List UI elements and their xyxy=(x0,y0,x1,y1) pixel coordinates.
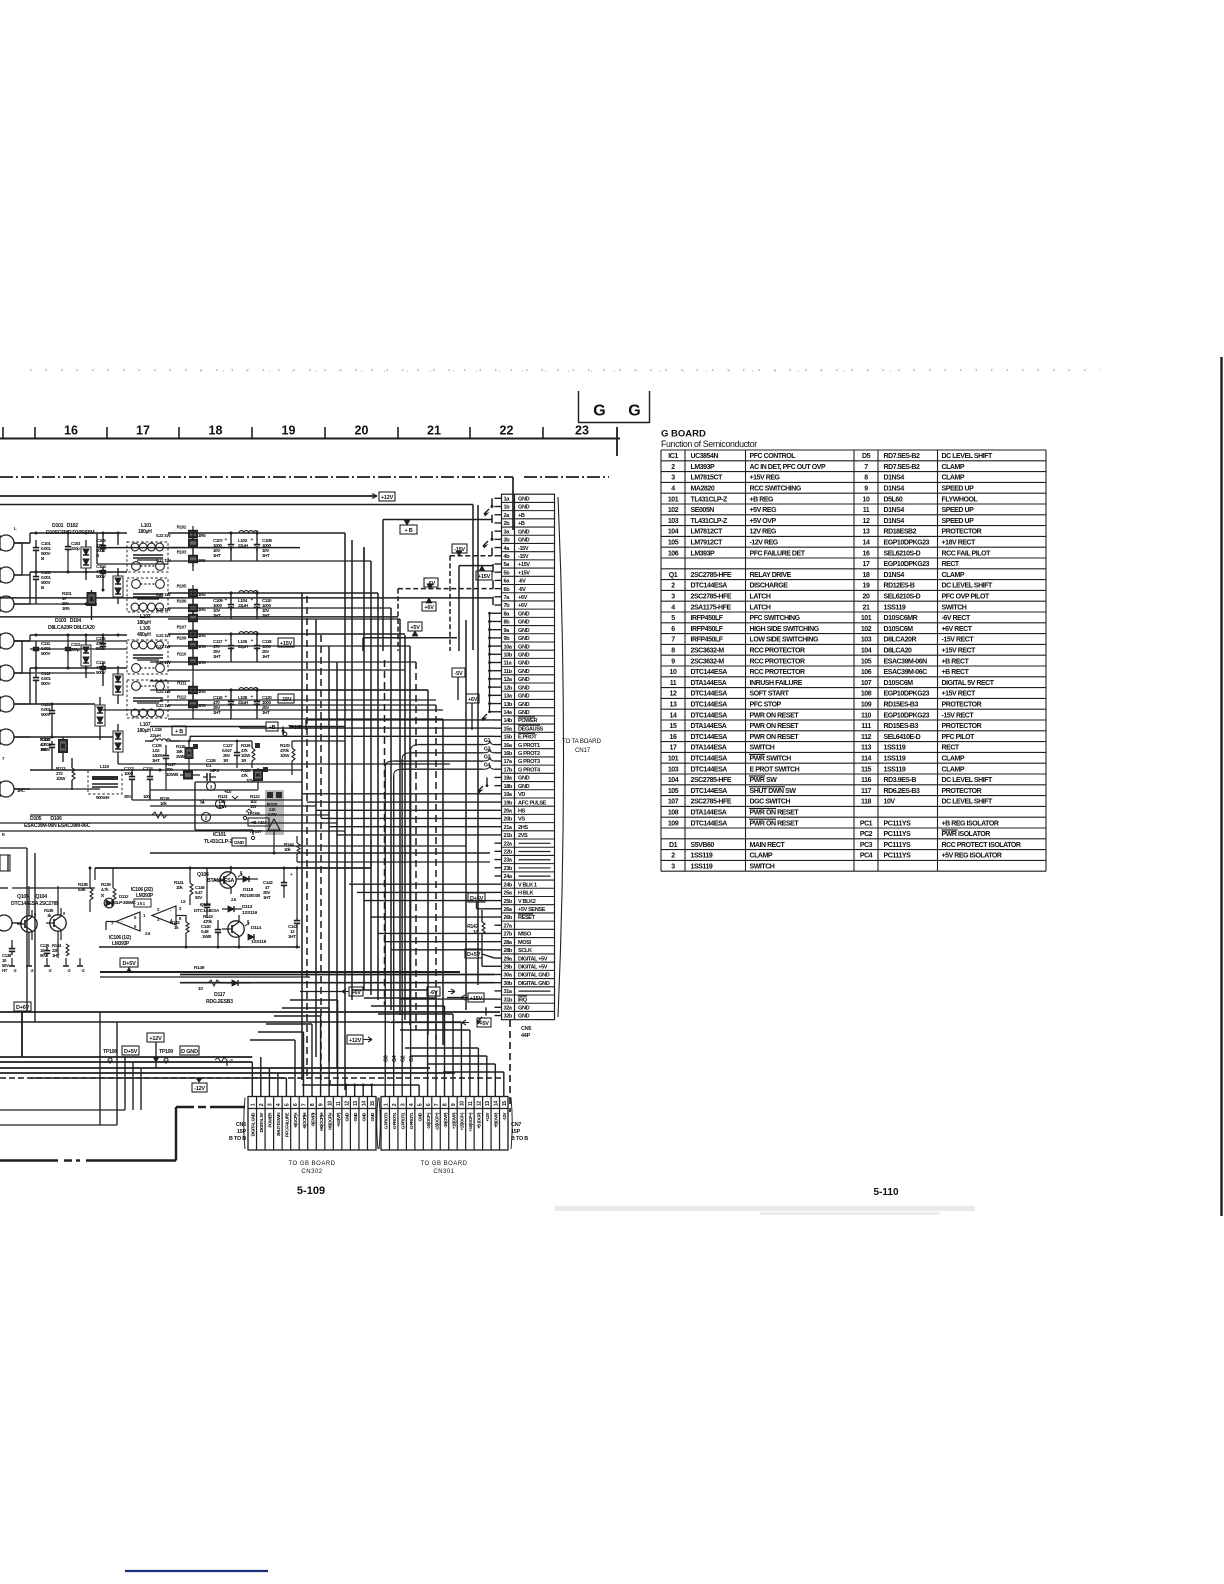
svg-text:500V: 500V xyxy=(41,747,51,752)
svg-text:113: 113 xyxy=(861,745,871,752)
svg-text:+6V: +6V xyxy=(424,605,434,611)
svg-text:RECT: RECT xyxy=(942,745,960,752)
svg-text:3: 3 xyxy=(671,594,675,601)
resistor R142 xyxy=(170,915,189,947)
svg-text:LM393P: LM393P xyxy=(112,941,130,947)
choke transformer L107 xyxy=(127,680,168,734)
voltage label +5V mid xyxy=(408,622,422,631)
svg-text:8: 8 xyxy=(443,1103,449,1106)
svg-text:EGP10DPKG23: EGP10DPKG23 xyxy=(884,691,930,698)
svg-text:18b: 18b xyxy=(504,784,513,790)
svg-text:CN5: CN5 xyxy=(521,1026,531,1032)
svg-text:2: 2 xyxy=(671,853,675,860)
junction dots filter rows xyxy=(67,532,259,692)
capacitor C101 xyxy=(33,540,52,572)
capacitor C105 xyxy=(96,533,106,558)
svg-text:19: 19 xyxy=(282,424,296,438)
svg-text:PROTECTOR: PROTECTOR xyxy=(942,723,982,730)
svg-text:21: 21 xyxy=(863,604,870,611)
svg-text:G PROT4: G PROT4 xyxy=(392,1112,397,1129)
svg-text:24a: 24a xyxy=(504,874,513,880)
wire bundle vertical bus xyxy=(302,505,478,1090)
svg-text:3: 3 xyxy=(210,785,213,790)
svg-text:SWITCH: SWITCH xyxy=(750,745,775,752)
svg-text:109: 109 xyxy=(861,702,872,709)
svg-text:EGP10DPKG23: EGP10DPKG23 xyxy=(884,561,930,568)
svg-text:500V: 500V xyxy=(41,651,51,656)
svg-text:1HT: 1HT xyxy=(152,758,160,763)
voltage label -15V xyxy=(278,694,294,703)
svg-text:MAIN RECT: MAIN RECT xyxy=(750,842,786,849)
capacitor C103 xyxy=(65,533,81,572)
inductor L104 xyxy=(238,591,258,608)
svg-text:HIGH SIDE SWITCHING: HIGH SIDE SWITCHING xyxy=(750,626,820,633)
svg-text:S5VB60: S5VB60 xyxy=(691,842,715,849)
svg-text:-6(OVP)I: -6(OVP)I xyxy=(310,1113,315,1127)
svg-text:R110: R110 xyxy=(177,652,187,657)
svg-text:DC LEVEL SHIFT: DC LEVEL SHIFT xyxy=(942,453,994,460)
svg-text:107: 107 xyxy=(861,680,872,687)
svg-text:D114: D114 xyxy=(251,925,262,931)
svg-text:+: + xyxy=(224,695,227,700)
svg-text:100: 100 xyxy=(143,794,150,799)
svg-text:4: 4 xyxy=(671,486,675,493)
svg-text:115: 115 xyxy=(861,766,871,773)
svg-text:102: 102 xyxy=(668,507,679,514)
svg-text:LM7815CT: LM7815CT xyxy=(691,475,724,482)
svg-text:20b: 20b xyxy=(504,817,513,823)
svg-text:107: 107 xyxy=(668,799,679,806)
svg-text:DTC144ESA: DTC144ESA xyxy=(691,766,728,773)
svg-text:SE005N: SE005N xyxy=(691,507,715,514)
svg-text:116: 116 xyxy=(861,777,871,784)
resistor R139 xyxy=(101,868,116,906)
svg-text:D1NS4: D1NS4 xyxy=(884,475,905,482)
svg-text:6b: 6b xyxy=(504,587,511,593)
svg-text:PFC PILOT: PFC PILOT xyxy=(942,734,976,741)
svg-text:101: 101 xyxy=(861,615,872,622)
svg-text:14: 14 xyxy=(670,712,677,719)
wire left edge links xyxy=(14,543,30,789)
resistor R133 R136 labels xyxy=(40,943,69,958)
capacitor C113 xyxy=(65,635,81,668)
svg-text:POWER: POWER xyxy=(518,718,537,724)
svg-text:+12V: +12V xyxy=(349,1038,362,1044)
choke transformer L103 xyxy=(127,578,168,626)
transistors Q105 Q104 labels xyxy=(11,894,59,907)
capacitor C123 xyxy=(124,766,135,800)
svg-text:+6V RECT: +6V RECT xyxy=(942,626,973,633)
svg-text:CLAMP: CLAMP xyxy=(750,853,773,860)
svg-text:LM7812CT: LM7812CT xyxy=(691,529,724,536)
svg-text:GND: GND xyxy=(518,776,530,782)
svg-text:G1: G1 xyxy=(484,738,491,744)
capacitor C127 xyxy=(222,741,240,768)
svg-text:-15(OCP-): -15(OCP-) xyxy=(426,1112,431,1129)
wire mid band extra horizontals xyxy=(0,670,490,862)
svg-text:DTC144ESA: DTC144ESA xyxy=(691,583,728,590)
svg-text:E: E xyxy=(2,832,5,837)
svg-text:10V: 10V xyxy=(884,799,896,806)
line input terminals xyxy=(0,535,30,931)
svg-text:+15(OCP-): +15(OCP-) xyxy=(460,1112,465,1130)
label TO GB BOARD CN301 xyxy=(420,1161,467,1175)
svg-text:+15(OCP+): +15(OCP+) xyxy=(468,1112,473,1132)
svg-text:20: 20 xyxy=(355,424,369,438)
resistor R113 xyxy=(56,758,75,790)
svg-text:2SC2785-HFE: 2SC2785-HFE xyxy=(691,777,732,784)
svg-text:1HT: 1HT xyxy=(263,895,271,900)
svg-text:IRFP450LF: IRFP450LF xyxy=(691,637,724,644)
svg-text:LM393P: LM393P xyxy=(691,464,716,471)
svg-text:+6V: +6V xyxy=(518,603,528,609)
resistor stack R102-R110 0.22 1W xyxy=(156,525,206,713)
svg-text:PWR ON RESET: PWR ON RESET xyxy=(750,712,800,719)
svg-text:RCC PROTECT ISOLATOR: RCC PROTECT ISOLATOR xyxy=(942,842,1021,849)
svg-text:Q1: Q1 xyxy=(669,572,678,579)
svg-text:109: 109 xyxy=(668,820,679,827)
svg-text:R106: R106 xyxy=(177,599,187,604)
svg-text:-12V: -12V xyxy=(194,1086,205,1092)
svg-text:+B RECT: +B RECT xyxy=(942,658,970,665)
diode pair D101 xyxy=(81,540,91,580)
svg-text:25a: 25a xyxy=(504,891,513,897)
svg-text:E PROT: E PROT xyxy=(518,735,537,741)
svg-text:104: 104 xyxy=(668,529,679,536)
svg-text:1/2W: 1/2W xyxy=(56,776,66,781)
svg-text:VD: VD xyxy=(518,792,525,798)
svg-text:PFC SWITCHING: PFC SWITCHING xyxy=(750,615,801,622)
svg-text:10a: 10a xyxy=(504,644,513,650)
svg-text:RD15ES-B3: RD15ES-B3 xyxy=(884,702,919,709)
wire E PROT feed pin 15b xyxy=(190,735,495,737)
svg-text:2: 2 xyxy=(205,816,208,821)
svg-text:PC1: PC1 xyxy=(860,820,873,827)
svg-text:D8LCA20: D8LCA20 xyxy=(884,648,913,655)
svg-text:GND: GND xyxy=(518,611,530,617)
test point TP105 xyxy=(283,725,302,736)
svg-text:17: 17 xyxy=(863,561,870,568)
svg-text:3: 3 xyxy=(671,475,675,482)
svg-text:16b: 16b xyxy=(504,751,513,757)
svg-text:1HT: 1HT xyxy=(262,710,270,715)
svg-text:SPEED UP: SPEED UP xyxy=(942,507,975,514)
svg-text:DIGITAL 5V RECT: DIGITAL 5V RECT xyxy=(942,680,995,687)
voltage label +15V xyxy=(278,638,294,647)
svg-text:16: 16 xyxy=(670,734,677,741)
resistor R115 xyxy=(176,741,198,770)
svg-text:GND: GND xyxy=(518,497,530,503)
column ruler xyxy=(0,424,620,457)
svg-text:7b: 7b xyxy=(504,603,511,609)
capacitor C108 xyxy=(250,533,272,558)
label IC101 TL431CLP-Z xyxy=(204,832,233,845)
svg-text:MOSI: MOSI xyxy=(518,940,532,946)
svg-text:1HT: 1HT xyxy=(213,613,221,618)
svg-text:GND: GND xyxy=(518,1014,530,1020)
svg-text:1SS119: 1SS119 xyxy=(242,910,258,916)
svg-text:G BOARD: G BOARD xyxy=(661,429,706,440)
svg-text:4: 4 xyxy=(409,1103,415,1106)
label +B ADJ box xyxy=(248,818,269,826)
svg-text:G: G xyxy=(628,403,640,420)
test point TP109 xyxy=(159,1049,173,1062)
svg-text:18a: 18a xyxy=(504,776,513,782)
svg-text:SEL6210S-D: SEL6210S-D xyxy=(884,594,921,601)
svg-text:LM7912CT: LM7912CT xyxy=(691,540,724,547)
capacitor C112 xyxy=(33,671,52,704)
svg-text:+15V: +15V xyxy=(518,570,530,576)
wire staircase to CN6 xyxy=(30,1000,373,1097)
svg-text:L118: L118 xyxy=(152,727,162,733)
svg-text:DIGITAL +5V: DIGITAL +5V xyxy=(518,964,548,970)
voltage label D+5V at pin 26a xyxy=(468,893,495,909)
svg-text:220p: 220p xyxy=(71,546,80,551)
svg-text:PWR ON RESET: PWR ON RESET xyxy=(750,723,800,730)
svg-text:11: 11 xyxy=(670,680,677,687)
svg-text:+15V RECT: +15V RECT xyxy=(942,691,977,698)
svg-text:10k: 10k xyxy=(284,847,291,852)
svg-text:8: 8 xyxy=(310,1103,316,1106)
svg-text:26b: 26b xyxy=(504,915,513,921)
svg-text:1: 1 xyxy=(250,1103,256,1106)
svg-text:RD7.5ES-B2: RD7.5ES-B2 xyxy=(884,453,921,460)
svg-text:2SC2785-HFE: 2SC2785-HFE xyxy=(691,799,732,806)
svg-text:+B REG: +B REG xyxy=(750,496,775,503)
diode pair D103 xyxy=(81,635,91,678)
svg-text:+: + xyxy=(224,639,227,644)
svg-text:1HT: 1HT xyxy=(262,553,270,558)
svg-text:5-109: 5-109 xyxy=(297,1185,325,1197)
svg-text:TP106: TP106 xyxy=(247,811,260,817)
svg-text:2b: 2b xyxy=(504,521,511,527)
svg-text:DTC144ESA: DTC144ESA xyxy=(691,702,728,709)
svg-text:PWR ON RESET: PWR ON RESET xyxy=(750,810,800,817)
svg-text:22b: 22b xyxy=(504,850,513,856)
resistor R144 xyxy=(284,836,300,862)
resistor R121 xyxy=(218,794,238,809)
svg-text:PFC STOP: PFC STOP xyxy=(750,702,782,709)
svg-text:G3: G3 xyxy=(384,1055,390,1062)
svg-text:13: 13 xyxy=(670,702,677,709)
svg-text:AC IN DET, PFC OUT OVP: AC IN DET, PFC OUT OVP xyxy=(750,464,826,471)
svg-text:12: 12 xyxy=(477,1101,483,1107)
svg-text:IRFP450LF: IRFP450LF xyxy=(691,615,724,622)
svg-text:21a: 21a xyxy=(504,825,513,831)
svg-text:D103 D104: D103 D104 xyxy=(55,618,81,624)
svg-text:103: 103 xyxy=(668,766,679,773)
svg-text:Q105 Q104: Q105 Q104 xyxy=(17,894,47,900)
svg-text:29b: 29b xyxy=(504,964,513,970)
wire IRQ pin 31b xyxy=(400,998,495,1000)
diodes D105 D106 labels xyxy=(24,816,91,829)
svg-text:D101 D102: D101 D102 xyxy=(52,523,78,529)
svg-text:13: 13 xyxy=(863,529,870,536)
svg-text:DTC144ESA: DTC144ESA xyxy=(691,691,728,698)
svg-text:31a: 31a xyxy=(504,989,513,995)
svg-text:H6(OCP)-I: H6(OCP)-I xyxy=(327,1113,332,1130)
resistor R122 xyxy=(246,794,260,812)
svg-text:108: 108 xyxy=(668,810,679,817)
test point TP108 xyxy=(103,1049,117,1062)
svg-text:2: 2 xyxy=(259,1103,265,1106)
svg-text:ESAC39M-06N ESAC39M-06C: ESAC39M-06N ESAC39M-06C xyxy=(24,823,91,829)
voltage label -5V mid xyxy=(452,668,465,700)
adjuster RV101 xyxy=(265,790,284,836)
svg-text:22a: 22a xyxy=(504,841,513,847)
svg-text:SCLK: SCLK xyxy=(518,948,532,954)
voltage label +15V xyxy=(476,571,492,580)
svg-text:22μH: 22μH xyxy=(238,543,249,548)
svg-text:G PROT3: G PROT3 xyxy=(384,1112,389,1129)
svg-text:1 5 1: 1 5 1 xyxy=(137,901,146,906)
wire +15V feeds pins 5a 5b xyxy=(459,564,493,651)
svg-text:CLAMP: CLAMP xyxy=(942,766,965,773)
table function of semiconductor xyxy=(661,450,1046,871)
svg-text:D112: D112 xyxy=(119,894,129,899)
svg-text:PFC FAILURE DET: PFC FAILURE DET xyxy=(750,550,806,557)
svg-text:1SS119: 1SS119 xyxy=(691,864,713,871)
svg-text:R107: R107 xyxy=(177,625,187,630)
connector CN7 15P board-to-board xyxy=(377,1097,529,1151)
table title G BOARD xyxy=(661,429,757,450)
capacitor C109 xyxy=(213,593,234,618)
voltage label +6V lower xyxy=(300,987,363,996)
svg-text:29a: 29a xyxy=(504,956,513,962)
svg-text:RESET: RESET xyxy=(518,915,536,921)
svg-text:RD12ES-B: RD12ES-B xyxy=(884,583,915,590)
svg-text:27a: 27a xyxy=(504,923,513,929)
capacitor C126 xyxy=(203,758,219,781)
svg-text:10: 10 xyxy=(198,986,203,992)
svg-text:GND: GND xyxy=(353,1112,358,1122)
voltage label +12V xyxy=(379,492,395,501)
svg-text:+15(OVP): +15(OVP) xyxy=(451,1112,456,1129)
svg-text:+5V REG: +5V REG xyxy=(750,507,778,514)
svg-text:15P: 15P xyxy=(511,1129,521,1135)
svg-text:DTA144ESA: DTA144ESA xyxy=(691,680,727,687)
voltage label +B at TP105 xyxy=(266,722,278,731)
svg-text:2.6: 2.6 xyxy=(145,931,151,936)
svg-text:106: 106 xyxy=(668,550,679,557)
svg-text:G2: G2 xyxy=(401,1055,407,1062)
wires A3 rectifier xyxy=(14,703,160,790)
svg-text:RDG.2ESB3: RDG.2ESB3 xyxy=(206,999,233,1005)
svg-text:V BLK 1: V BLK 1 xyxy=(518,882,537,888)
svg-text:+15V: +15V xyxy=(470,996,483,1002)
label D GND box xyxy=(180,1046,199,1055)
svg-text:1HT: 1HT xyxy=(262,654,270,659)
svg-text:DTC144ESA: DTC144ESA xyxy=(691,712,728,719)
svg-text:DTA144ESA: DTA144ESA xyxy=(691,810,727,817)
svg-text:Function of Semiconductor: Function of Semiconductor xyxy=(661,439,757,449)
wires comparator cluster xyxy=(0,867,371,959)
svg-text:22μH: 22μH xyxy=(150,733,161,739)
svg-text:1SS119: 1SS119 xyxy=(884,766,906,773)
svg-text:12V REG: 12V REG xyxy=(750,529,777,536)
svg-text:44P: 44P xyxy=(521,1033,531,1039)
svg-text:11: 11 xyxy=(863,507,870,514)
svg-text:9: 9 xyxy=(319,1103,325,1106)
svg-text:+15V RECT: +15V RECT xyxy=(942,648,977,655)
svg-text:DTC144ESA: DTC144ESA xyxy=(691,734,728,741)
svg-text:-15V: -15V xyxy=(454,547,465,553)
svg-text:+5V OVP: +5V OVP xyxy=(750,518,777,525)
capacitor C115 xyxy=(96,635,106,651)
svg-text:-2: -2 xyxy=(229,1058,233,1064)
svg-text:GND: GND xyxy=(518,694,530,700)
svg-text:D+5V: D+5V xyxy=(122,961,136,967)
capacitor C107 xyxy=(213,533,234,558)
voltage label +B top xyxy=(400,525,417,534)
wire POWER feed pin 14b xyxy=(306,720,495,730)
svg-text:-12V REG: -12V REG xyxy=(750,540,779,547)
svg-text:RD18ESB2: RD18ESB2 xyxy=(884,529,917,536)
svg-text:17a: 17a xyxy=(504,759,513,765)
resistor R138 xyxy=(78,868,93,912)
resistor R135 xyxy=(44,908,54,918)
bottom blue rule xyxy=(125,1570,268,1572)
svg-text:18: 18 xyxy=(209,424,223,438)
svg-text:+6V: +6V xyxy=(468,697,478,703)
choke transformer L119 xyxy=(88,764,122,800)
svg-text:PC4: PC4 xyxy=(860,853,873,860)
svg-text:G4: G4 xyxy=(392,1055,398,1062)
svg-text:+: + xyxy=(224,538,227,543)
svg-text:102: 102 xyxy=(861,626,872,633)
svg-text:RELAY DRIVE: RELAY DRIVE xyxy=(750,572,792,579)
wire -15V feeds pins 4a 4b dashed xyxy=(97,548,492,651)
transistor Q109 label xyxy=(194,897,237,914)
svg-text:LM393P: LM393P xyxy=(136,893,154,899)
svg-text:11: 11 xyxy=(468,1101,474,1106)
resistor R125 xyxy=(280,741,295,775)
svg-text:1b: 1b xyxy=(504,505,511,511)
svg-text:E PROT SWITCH: E PROT SWITCH xyxy=(750,766,800,773)
svg-text:D1NS4: D1NS4 xyxy=(884,486,905,493)
svg-text:101: 101 xyxy=(668,756,679,763)
svg-text:G PROT3: G PROT3 xyxy=(518,759,540,765)
svg-text:1HT: 1HT xyxy=(213,654,221,659)
svg-text:108: 108 xyxy=(861,691,872,698)
svg-text:14a: 14a xyxy=(504,710,513,716)
svg-text:GND: GND xyxy=(518,529,530,535)
svg-text:114: 114 xyxy=(861,756,871,763)
ground bus at CN5 pins 8a-14a xyxy=(482,612,495,721)
svg-text:1/2W: 1/2W xyxy=(280,753,290,758)
svg-text:D1: D1 xyxy=(669,842,678,849)
svg-text:TO GB BOARD: TO GB BOARD xyxy=(288,1161,335,1167)
svg-text:+ B: + B xyxy=(404,528,412,534)
svg-text:480μH: 480μH xyxy=(137,632,151,638)
svg-text:14: 14 xyxy=(494,1101,500,1107)
svg-text:G PROT1: G PROT1 xyxy=(518,743,540,749)
wires digital ground pins 30a 30b xyxy=(180,974,495,982)
svg-text:GND: GND xyxy=(362,1112,367,1122)
svg-text:IC101: IC101 xyxy=(213,832,226,838)
svg-text:RD7.5ES-B2: RD7.5ES-B2 xyxy=(884,464,921,471)
svg-text:HS: HS xyxy=(518,808,526,814)
svg-text:1SS119: 1SS119 xyxy=(251,939,267,945)
diode D118 xyxy=(236,876,261,899)
svg-text:+6.0(VP): +6.0(VP) xyxy=(336,1112,341,1127)
svg-text:8b: 8b xyxy=(504,620,511,626)
svg-text:+ B: + B xyxy=(175,729,183,735)
wires serial feeds pins 27b-28b xyxy=(378,933,495,949)
svg-text:SHUT DWN SW: SHUT DWN SW xyxy=(750,788,797,795)
svg-text:H6(OCP)H: H6(OCP)H xyxy=(319,1113,324,1131)
svg-text:PWR ON RESET: PWR ON RESET xyxy=(750,820,800,827)
